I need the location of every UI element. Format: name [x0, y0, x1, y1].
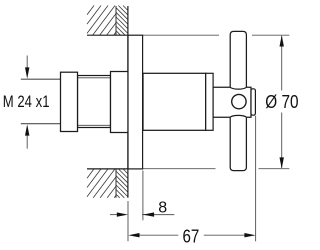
svg-text:67: 67 — [183, 225, 200, 246]
svg-text:Ø 70: Ø 70 — [265, 91, 298, 112]
svg-text:M 24 x1: M 24 x1 — [3, 93, 50, 111]
svg-text:8: 8 — [158, 199, 167, 216]
